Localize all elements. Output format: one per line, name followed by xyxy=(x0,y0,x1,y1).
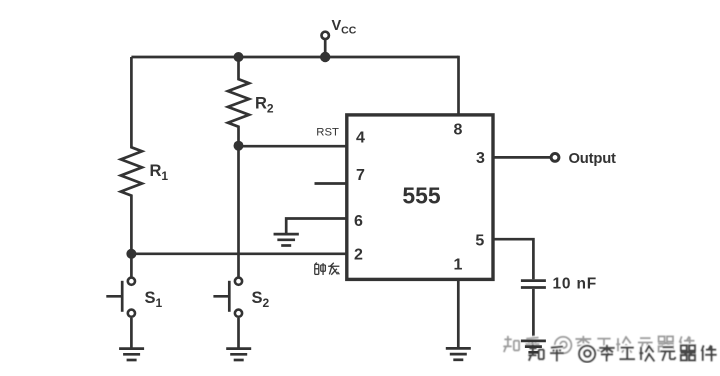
ground under capacitor xyxy=(521,341,546,352)
wire trigger rail to pin 2 xyxy=(131,252,347,255)
svg-text:R1: R1 xyxy=(150,162,169,183)
ground at pin 6 xyxy=(274,234,299,245)
watermark layer 2 (dark bold copy) xyxy=(528,345,716,362)
terminal Output xyxy=(551,154,559,162)
svg-text:8: 8 xyxy=(454,122,463,139)
svg-text:R2: R2 xyxy=(255,95,274,116)
svg-text:1: 1 xyxy=(453,256,462,273)
node R2 top junction xyxy=(234,52,244,62)
svg-text:RST: RST xyxy=(316,126,339,138)
svg-text:7: 7 xyxy=(356,167,365,184)
svg-text:S2: S2 xyxy=(252,289,270,310)
svg-text:VCC: VCC xyxy=(332,18,357,37)
svg-text:Output: Output xyxy=(569,151,617,167)
wire R2 bottom down to switch S2 xyxy=(237,146,240,277)
capacitor C1 plates xyxy=(521,281,546,288)
ground under S2 xyxy=(226,349,251,360)
watermark layer 1 (知乎 @李工谈元器件, gray) xyxy=(503,336,695,354)
switch S1 xyxy=(106,254,135,348)
node R1 bottom junction xyxy=(126,249,136,259)
wire VCC stub xyxy=(324,40,327,58)
terminal VCC xyxy=(322,32,329,39)
svg-text:2: 2 xyxy=(354,247,363,264)
wire pin 5 to capacitor xyxy=(493,239,533,279)
svg-text:4: 4 xyxy=(356,130,365,147)
svg-text:555: 555 xyxy=(402,183,441,209)
ground under S1 xyxy=(119,349,144,360)
op-amp/IC U1 555 body xyxy=(347,115,493,280)
wire pin 1 to ground xyxy=(457,280,460,348)
node R2 bottom junction xyxy=(234,141,244,151)
label trigger (触发) xyxy=(315,263,340,276)
wire pin8 drop from rail to IC top xyxy=(457,56,460,116)
svg-text:5: 5 xyxy=(475,233,484,250)
switch S2 xyxy=(213,278,242,348)
wire pin 6 xyxy=(286,219,347,235)
ground at pin 1 xyxy=(446,348,471,359)
wire pin 3 to output xyxy=(493,156,551,159)
svg-text:3: 3 xyxy=(476,150,485,167)
wire pin 7 stub xyxy=(315,182,348,185)
svg-text:S1: S1 xyxy=(145,289,163,310)
wire capacitor to ground xyxy=(532,289,535,338)
svg-text:6: 6 xyxy=(354,213,363,230)
svg-text:10 nF: 10 nF xyxy=(553,275,597,292)
wire top power rail xyxy=(131,56,458,59)
resistor R1 xyxy=(121,57,142,254)
wire RST to pin 4 xyxy=(239,145,348,148)
resistor R2 xyxy=(228,57,249,146)
node VCC junction xyxy=(320,52,330,62)
